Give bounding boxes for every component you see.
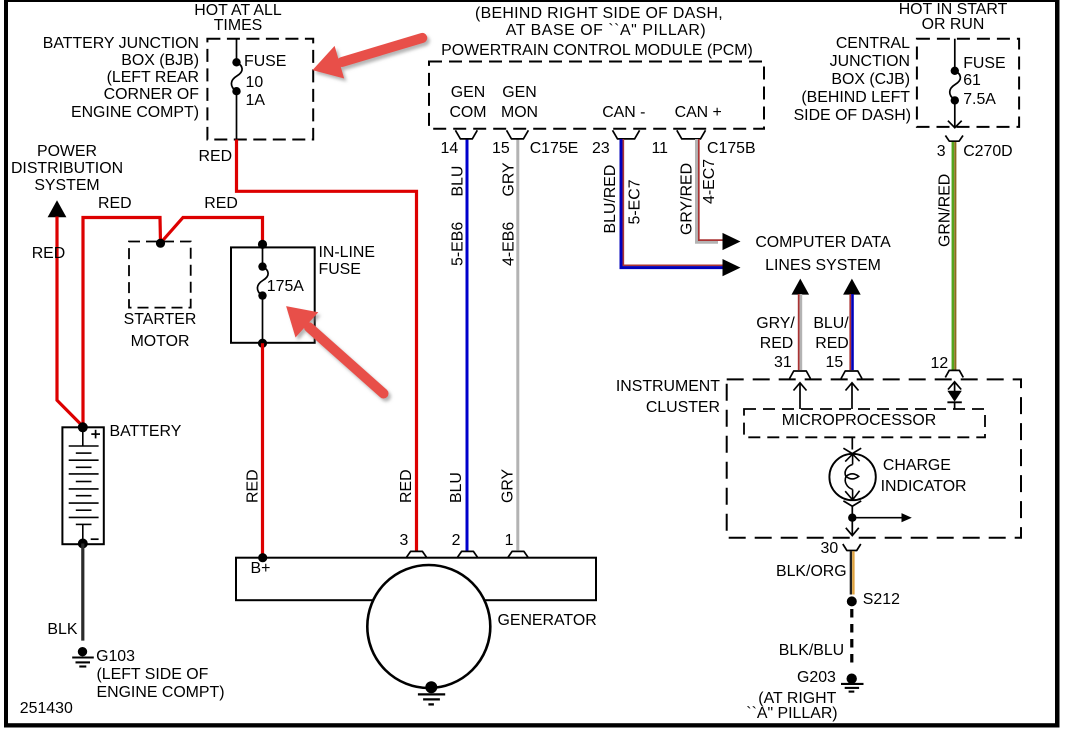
label power distribution system xyxy=(7,144,127,160)
pin number 14 xyxy=(441,141,459,157)
label in-line fuse xyxy=(319,245,376,261)
arrow to POWER DISTRIBUTION SYSTEM xyxy=(48,200,67,217)
pin label CAN + xyxy=(675,105,722,121)
label GENERATOR xyxy=(498,613,597,629)
connector C175B pin 11 bump xyxy=(677,130,706,139)
wire BLU/RED CAN- to computer data lines xyxy=(623,139,722,265)
fuse F61 (FUSE 61 7.5A) xyxy=(948,39,962,128)
connector bump cluster pin 30 xyxy=(843,544,861,551)
node below charge indicator xyxy=(848,514,856,522)
wire RED battery to starter junction xyxy=(83,218,161,428)
label battery junction box xyxy=(39,36,199,52)
wire GRY PCM 15 to generator pin 1 xyxy=(516,139,519,550)
wire RED starter junction to in-line fuse xyxy=(161,218,263,245)
label HOT IN START OR RUN xyxy=(873,2,1033,18)
powertrain control module PCM box (dashed) xyxy=(429,62,764,129)
branch wire with arrow xyxy=(852,517,902,519)
pin number 2 generator xyxy=(452,533,461,549)
label BLU/RED cluster xyxy=(806,316,856,332)
wire GRY/RED cluster pin 31 xyxy=(798,294,800,370)
callout arrow 2 (to in-line fuse) xyxy=(286,306,383,393)
label computer data lines system xyxy=(753,235,893,251)
connector bump cluster pin 15 xyxy=(841,371,862,379)
fuse F175 (175A) xyxy=(257,247,268,343)
splice S212 xyxy=(847,596,857,606)
label microprocessor xyxy=(759,413,959,429)
connector C270D bump xyxy=(945,136,963,142)
label battery xyxy=(110,424,182,440)
callout arrow 1 (to fuse 10) xyxy=(313,38,423,79)
wire GRN/RED CJB to cluster pin 12 xyxy=(952,142,955,370)
arrow microprocessor to pin 31 xyxy=(794,383,807,409)
wire BLU/RED cluster pin 15 xyxy=(849,294,851,370)
instrument cluster box (dashed) xyxy=(727,379,1021,537)
label RED below fuse10 xyxy=(199,149,233,165)
pin number 30 xyxy=(821,541,839,557)
generator terminal box xyxy=(236,558,596,601)
splice label S212 xyxy=(863,592,900,608)
label 251430 xyxy=(20,701,73,717)
in-line fuse box xyxy=(231,247,315,342)
node starter motor terminal xyxy=(156,239,165,248)
label BLK xyxy=(47,622,77,638)
node generator B+ terminal xyxy=(258,553,267,562)
label starter motor xyxy=(100,312,220,328)
label RED above starter xyxy=(98,196,132,212)
pin number 12 xyxy=(931,356,949,372)
pin label GEN MON xyxy=(490,85,550,101)
connector bump cluster pin 12 xyxy=(945,370,963,377)
wire microprocessor to charge indicator xyxy=(851,437,853,449)
arrowhead to pin 30 xyxy=(846,528,859,536)
ground G203 xyxy=(841,674,864,692)
pin number 31 xyxy=(774,355,792,371)
wire BLK/BLU S212 to G203 (dashed) xyxy=(850,609,853,668)
generator G1 body xyxy=(367,565,490,688)
battery junction box BJB (dashed) xyxy=(207,39,313,140)
fuse F10 (FUSE 10 1A) xyxy=(231,39,242,140)
wire RED in-line fuse to generator B+ xyxy=(261,343,264,556)
pin number 3 CJB xyxy=(937,144,946,160)
pin number 15 xyxy=(492,141,510,157)
pin label B+ xyxy=(251,561,271,577)
label GRY/RED cluster xyxy=(751,316,801,332)
charge indicator lamp xyxy=(829,454,875,506)
label charge indicator xyxy=(883,458,951,474)
diode D1 at cluster pin 12 xyxy=(947,382,961,410)
wire charge indicator to pin 30 xyxy=(851,506,853,536)
wire GRY/RED CAN+ to computer data lines xyxy=(697,139,719,242)
arrow from cluster 15 to computer data lines xyxy=(843,279,861,295)
connector bump cluster pin 31 xyxy=(790,371,811,379)
wire BLU PCM 14 to generator pin 2 xyxy=(466,139,469,550)
connector C175E pin 14 bump xyxy=(455,130,477,139)
ground G103 xyxy=(72,647,94,667)
arrow microprocessor to pin 15 xyxy=(846,383,859,409)
arrow to computer data lines (GRY/RED) xyxy=(723,233,741,250)
battery BAT1 xyxy=(62,427,103,544)
value label 175A xyxy=(267,279,304,295)
label G103 xyxy=(96,649,135,665)
wire BLK/ORG pin 30 to S212 xyxy=(850,551,852,594)
wire BLK battery to G103 xyxy=(81,544,84,641)
pin label CAN - xyxy=(602,105,645,121)
pin number 11 xyxy=(652,141,669,157)
label central junction box xyxy=(750,36,910,52)
node in-line fuse bottom xyxy=(258,339,267,348)
central junction box CJB (dashed) xyxy=(917,39,1019,127)
connector chevron above charge indicator xyxy=(843,448,861,453)
pin label GEN COM xyxy=(438,85,498,101)
label HOT AT ALL TIMES xyxy=(158,3,318,19)
value label fuse 10 1A xyxy=(244,54,286,70)
pin number 15 cluster xyxy=(826,355,844,371)
label RED left xyxy=(32,246,66,262)
connector bump generator pin 2 xyxy=(458,551,478,557)
pin number 23 xyxy=(592,141,610,157)
value label fuse 61 7.5A xyxy=(963,56,1005,72)
label BLK/ORG xyxy=(776,564,847,580)
label G203 xyxy=(797,670,836,686)
wire RED battery to power distribution xyxy=(57,217,83,427)
wire RED from fuse10 to generator pin 3 xyxy=(237,140,417,552)
connector label C175B xyxy=(707,141,756,157)
label instrument cluster xyxy=(560,379,720,395)
connector bump generator pin 1 xyxy=(508,551,528,557)
arrow to computer data lines (BLU/RED) xyxy=(723,259,741,276)
connector C175E pin 15 bump xyxy=(507,130,529,139)
starter motor box (dashed) xyxy=(129,242,191,308)
node in-line fuse top xyxy=(258,240,267,249)
generator case ground xyxy=(418,681,445,704)
pin number 1 generator xyxy=(505,533,514,549)
pin number 3 generator xyxy=(400,533,409,549)
arrow from cluster 31 to computer data lines xyxy=(792,279,810,295)
label BLK/BLU xyxy=(779,643,844,659)
connector label C270D xyxy=(963,144,1012,160)
connector label C175E xyxy=(530,141,579,157)
label PCM header xyxy=(449,6,749,22)
microprocessor box (dashed) xyxy=(744,409,985,437)
connector bump generator pin 3 xyxy=(407,551,427,557)
connector C175B pin 23 bump xyxy=(613,130,640,139)
label RED above in-line fuse xyxy=(204,196,238,212)
